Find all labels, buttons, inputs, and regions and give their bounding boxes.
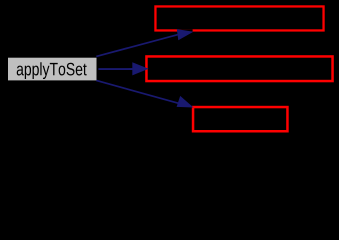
node box2 (red-bordered callee, middle) [146, 56, 332, 81]
edge applyToSet -> box2 (wire) [98, 68, 134, 70]
node box3 (red-bordered callee, bottom) [193, 107, 287, 131]
node applyToSet (current node, grey fill) [8, 58, 97, 81]
arrowhead of edge to box2 [132, 62, 148, 75]
arrowhead of edge to box3 [177, 96, 194, 108]
edge applyToSet -> box1 (wire) [96, 35, 177, 57]
arrowhead of edge to box1 (overlaps box1 bottom border) [177, 29, 194, 40]
node box1 (red-bordered callee, top) [155, 6, 323, 30]
edge applyToSet -> box3 (wire) [96, 80, 179, 103]
